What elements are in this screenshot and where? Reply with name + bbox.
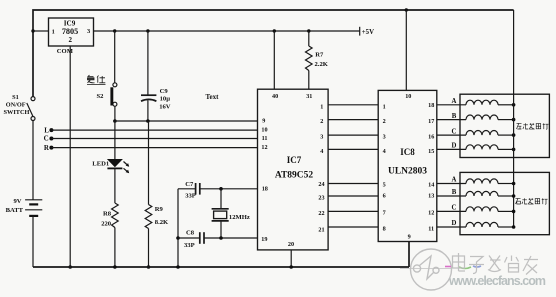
svg-text:A: A bbox=[452, 177, 457, 184]
svg-text:23: 23 bbox=[318, 195, 324, 202]
wire: IC8 pin14 to motor2 A bbox=[437, 183, 466, 185]
svg-text:C: C bbox=[44, 135, 49, 143]
svg-text:19: 19 bbox=[261, 236, 267, 243]
node: pin20 ground junction bbox=[289, 265, 293, 269]
svg-text:IC7: IC7 bbox=[287, 155, 302, 165]
node: reset junction bbox=[113, 119, 117, 123]
node: R9 ground junction bbox=[147, 265, 151, 269]
node: C8 tee bbox=[176, 236, 180, 240]
capacitor C9 bbox=[141, 88, 171, 110]
wire: IC7 pin1 to IC8 pin1 bbox=[328, 104, 378, 106]
capacitor C7 bbox=[178, 181, 200, 199]
wire: L to IC7 pin10 bbox=[51, 129, 257, 131]
svg-text:ULN2803: ULN2803 bbox=[388, 167, 427, 177]
svg-text:17: 17 bbox=[428, 118, 434, 125]
wire: C8 to IC7 pin19 bbox=[204, 237, 258, 239]
wire: +5V to IC7 pin40 bbox=[273, 31, 275, 89]
svg-text:2.2K: 2.2K bbox=[315, 61, 329, 68]
node: COM on ground rail bbox=[68, 265, 72, 269]
svg-text:9: 9 bbox=[262, 117, 265, 124]
node: pin40 branch junction bbox=[273, 29, 276, 32]
svg-text:B: B bbox=[452, 113, 457, 120]
coil motor2 C bbox=[466, 207, 514, 212]
wire: IC8 pin13 to motor2 B bbox=[437, 195, 466, 197]
svg-text:LED1: LED1 bbox=[92, 161, 109, 168]
svg-text:D: D bbox=[452, 220, 457, 227]
wire: IC7 pin4 to IC8 pin4 bbox=[328, 148, 378, 150]
wire: IC7 pin22 to IC8 pin7 bbox=[328, 210, 378, 212]
svg-text:A: A bbox=[452, 98, 457, 105]
svg-text:www.elecfans.com: www.elecfans.com bbox=[448, 274, 546, 288]
node: R7 branch junction bbox=[307, 29, 310, 32]
svg-text:1: 1 bbox=[383, 103, 386, 110]
svg-text:14: 14 bbox=[428, 182, 434, 189]
svg-text:BATT: BATT bbox=[6, 207, 24, 214]
svg-text:L: L bbox=[44, 126, 49, 134]
coil motor1 D bbox=[466, 145, 514, 150]
resistor R8 bbox=[112, 203, 119, 228]
wire: +5V rail bbox=[94, 30, 360, 32]
node: rail to IC8 pin10 junction bbox=[405, 8, 408, 11]
svg-text:22: 22 bbox=[318, 210, 324, 217]
node: crystal top junction bbox=[219, 187, 223, 191]
svg-text:24: 24 bbox=[318, 181, 324, 188]
wire: IC8 pin9 to ground rail bbox=[408, 242, 410, 268]
svg-text:10: 10 bbox=[405, 93, 411, 100]
svg-text:8.2K: 8.2K bbox=[155, 219, 169, 226]
coil motor2 B bbox=[466, 191, 514, 196]
wire: IC8 pin11 to motor2 D bbox=[437, 226, 466, 228]
wire: IC7 pin23 to IC8 pin6 bbox=[328, 195, 378, 197]
wire: rail to IC8 pin10 bbox=[405, 10, 407, 90]
wire: S2 node down to LED bbox=[114, 121, 116, 159]
svg-text:S1: S1 bbox=[12, 94, 19, 101]
wire: reset node down to R9 bbox=[148, 121, 150, 205]
svg-text:B: B bbox=[452, 189, 457, 196]
svg-text:R8: R8 bbox=[103, 210, 112, 217]
label 复位 (reset) bbox=[87, 75, 106, 85]
svg-text:13: 13 bbox=[428, 193, 434, 200]
coil motor2 A bbox=[466, 179, 514, 184]
capacitor C8 bbox=[178, 229, 204, 248]
wire: R to IC7 pin12 bbox=[51, 147, 257, 149]
watermark logo circle bbox=[400, 249, 452, 290]
MCU IC7 AT89C52 bbox=[258, 89, 329, 250]
svg-text:Text: Text bbox=[206, 93, 220, 101]
regulator IC9 7805 bbox=[49, 18, 94, 46]
svg-text:AT89C52: AT89C52 bbox=[275, 171, 314, 181]
svg-text:11: 11 bbox=[262, 135, 268, 142]
wire: C to IC7 pin11 bbox=[51, 138, 257, 140]
svg-text:31: 31 bbox=[306, 93, 312, 100]
wire: IC8 pin12 to motor2 C bbox=[437, 210, 466, 212]
svg-text:C9: C9 bbox=[160, 88, 169, 95]
wire: S2 to reset node bbox=[114, 106, 116, 121]
node: crystal bottom junction bbox=[219, 236, 223, 240]
coil motor1 B bbox=[466, 115, 514, 120]
wire: common supply vertical bbox=[513, 10, 515, 227]
watermark text 电子发烧友 bbox=[453, 253, 539, 275]
wire: IC7 pin3 to IC8 pin3 bbox=[328, 134, 378, 136]
svg-text:C: C bbox=[452, 128, 457, 135]
svg-text:2: 2 bbox=[69, 36, 73, 44]
wire: S1 to battery bbox=[32, 121, 34, 200]
svg-text:16: 16 bbox=[428, 134, 434, 141]
svg-text:12: 12 bbox=[428, 209, 434, 216]
svg-text:C7: C7 bbox=[185, 181, 194, 188]
svg-text:6: 6 bbox=[383, 193, 386, 200]
ground rail (bottom) bbox=[33, 266, 409, 268]
wire: battery top rail bbox=[33, 10, 514, 97]
wire: +5V down to S2 bbox=[114, 31, 116, 83]
svg-text:7805: 7805 bbox=[62, 27, 78, 36]
svg-text:16V: 16V bbox=[159, 103, 171, 110]
resistor R7 bbox=[306, 31, 329, 89]
svg-text:8: 8 bbox=[383, 226, 386, 233]
wire: battery to ground rail bbox=[32, 216, 34, 267]
svg-text:40: 40 bbox=[272, 93, 278, 100]
wire: IC7 pin2 to IC8 pin2 bbox=[328, 119, 378, 121]
svg-text:21: 21 bbox=[318, 226, 324, 233]
node: S2 branch junction bbox=[113, 29, 116, 32]
svg-text:ON/OF: ON/OF bbox=[6, 102, 26, 109]
svg-text:220: 220 bbox=[101, 221, 112, 228]
switch S1 bbox=[4, 94, 35, 121]
stepper motor 1 box bbox=[460, 94, 549, 157]
svg-text:7: 7 bbox=[383, 209, 386, 216]
stepper motor 2 box bbox=[460, 172, 549, 234]
battery 9V BATT bbox=[6, 198, 43, 216]
node: crystal branch ground junction bbox=[176, 265, 180, 269]
wire: R9 to ground rail bbox=[148, 229, 150, 268]
svg-text:20: 20 bbox=[288, 241, 294, 248]
svg-text:2: 2 bbox=[383, 118, 386, 125]
svg-text:C: C bbox=[452, 205, 457, 212]
wire: C9 to reset node bbox=[147, 100, 149, 121]
crystal 12MHz bbox=[212, 189, 250, 238]
svg-text:12: 12 bbox=[261, 144, 267, 151]
svg-text:4: 4 bbox=[320, 148, 323, 155]
wire: IC8 pin17 to motor1 B bbox=[437, 119, 466, 121]
wire: IC8 pin18 to motor1 A bbox=[437, 104, 466, 106]
svg-text:D: D bbox=[452, 143, 457, 150]
coil motor2 D bbox=[466, 222, 514, 227]
svg-text:4: 4 bbox=[383, 148, 386, 155]
coil motor1 A bbox=[466, 100, 514, 105]
svg-text:5: 5 bbox=[383, 182, 386, 189]
svg-text:9: 9 bbox=[408, 234, 411, 241]
wire: IC9 pin1 input bbox=[33, 30, 49, 32]
wire: IC7 pin20 to ground rail bbox=[290, 250, 292, 267]
svg-text:2: 2 bbox=[320, 118, 323, 125]
watermark accent strokes bbox=[445, 266, 481, 269]
label 左步进电机 bbox=[517, 123, 549, 129]
svg-text:R7: R7 bbox=[315, 52, 324, 59]
wire: IC9 COM (pin2) to ground rail bbox=[69, 46, 71, 267]
pushbutton S2 bbox=[97, 83, 117, 106]
svg-text:IC8: IC8 bbox=[400, 147, 415, 157]
svg-text:10: 10 bbox=[261, 126, 267, 133]
svg-text:18: 18 bbox=[262, 186, 268, 193]
wire: LED to R8 bbox=[114, 168, 116, 203]
node: C9/R9 on reset line bbox=[146, 119, 150, 123]
svg-text:3: 3 bbox=[87, 28, 90, 35]
svg-text:S2: S2 bbox=[97, 93, 105, 100]
svg-text:SWITCH: SWITCH bbox=[4, 109, 30, 116]
wire: +5V down to C9 bbox=[147, 31, 149, 95]
svg-text:COM: COM bbox=[57, 48, 74, 55]
svg-text:+5V: +5V bbox=[362, 29, 374, 36]
wire: IC7 pin21 to IC8 pin8 bbox=[328, 226, 378, 228]
wire: IC8 pin15 to motor1 D bbox=[437, 148, 466, 150]
node: pin1 junction on left rail bbox=[31, 29, 34, 32]
svg-text:18: 18 bbox=[428, 102, 434, 109]
svg-text:1: 1 bbox=[320, 103, 323, 110]
svg-text:10µ: 10µ bbox=[160, 96, 171, 103]
wire: IC7 pin24 to IC8 pin5 bbox=[328, 183, 378, 185]
driver IC8 ULN2803 bbox=[378, 90, 437, 241]
svg-text:1: 1 bbox=[52, 29, 55, 36]
svg-text:12MHz: 12MHz bbox=[229, 214, 250, 221]
resistor R9 bbox=[145, 205, 152, 229]
svg-text:15: 15 bbox=[428, 148, 434, 155]
svg-text:33P: 33P bbox=[184, 242, 195, 249]
svg-text:9V: 9V bbox=[13, 198, 21, 205]
LED LED1 bbox=[92, 159, 129, 173]
svg-text:3: 3 bbox=[383, 134, 386, 141]
wire: crystal ground branch vertical bbox=[177, 189, 179, 267]
power symbol +5V bbox=[359, 27, 361, 36]
wire: reset line to IC7 pin9 bbox=[115, 120, 258, 122]
svg-text:R9: R9 bbox=[155, 206, 164, 213]
label 右步进电机 bbox=[516, 198, 548, 204]
coil motor1 C bbox=[466, 131, 514, 136]
wire: C7 to IC7 pin18 bbox=[200, 188, 258, 190]
svg-text:3: 3 bbox=[320, 134, 323, 141]
wire: R8 to ground rail bbox=[114, 228, 116, 268]
node: R8 ground junction bbox=[113, 265, 117, 269]
svg-text:33P: 33P bbox=[185, 193, 196, 200]
svg-text:11: 11 bbox=[428, 226, 434, 233]
wire: IC8 pin16 to motor1 C bbox=[437, 134, 466, 136]
node: C9 branch junction bbox=[146, 29, 149, 32]
svg-text:C8: C8 bbox=[186, 229, 195, 236]
